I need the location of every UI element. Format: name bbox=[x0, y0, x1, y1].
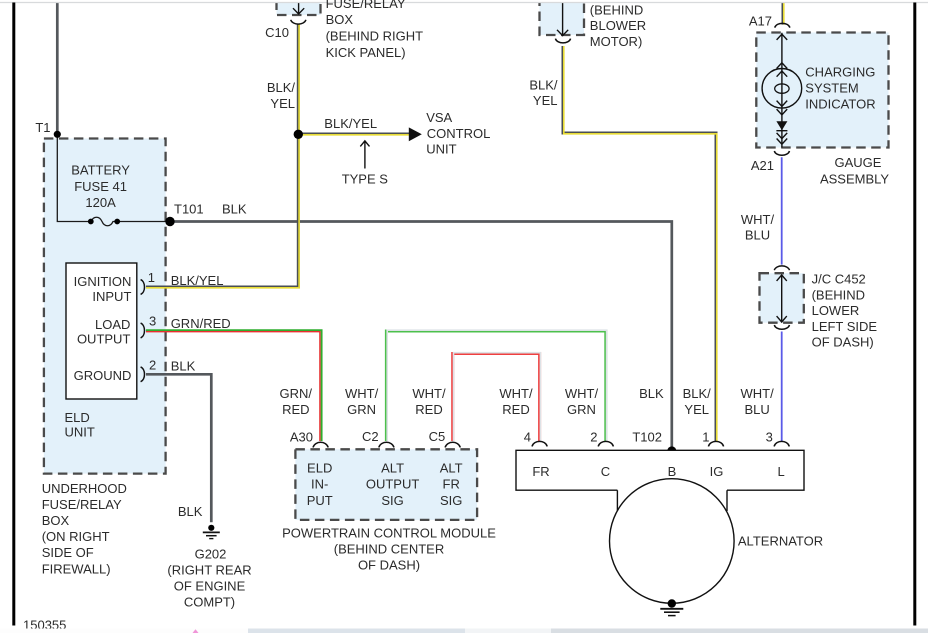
svg-text:BLK: BLK bbox=[222, 202, 247, 217]
svg-text:L: L bbox=[777, 464, 784, 479]
svg-text:UNDERHOOD: UNDERHOOD bbox=[42, 481, 127, 496]
svg-text:CONTROL: CONTROL bbox=[427, 126, 491, 141]
svg-text:A30: A30 bbox=[290, 430, 313, 445]
svg-text:IG: IG bbox=[710, 464, 724, 479]
svg-text:BLK/YEL: BLK/YEL bbox=[324, 116, 377, 131]
svg-text:(RIGHT REAR: (RIGHT REAR bbox=[167, 562, 251, 577]
svg-text:WHT/: WHT/ bbox=[565, 386, 599, 401]
svg-text:ELD: ELD bbox=[307, 460, 332, 475]
svg-text:BLK/: BLK/ bbox=[683, 386, 712, 401]
svg-text:BLK: BLK bbox=[178, 504, 203, 519]
svg-text:(BEHIND: (BEHIND bbox=[812, 287, 865, 302]
svg-text:PUT: PUT bbox=[307, 493, 333, 508]
svg-text:CHARGING: CHARGING bbox=[805, 64, 875, 79]
svg-text:ALTERNATOR: ALTERNATOR bbox=[738, 534, 823, 549]
svg-text:BATTERY: BATTERY bbox=[71, 163, 130, 178]
svg-text:GRN/: GRN/ bbox=[280, 386, 313, 401]
svg-text:2: 2 bbox=[149, 358, 156, 373]
svg-text:(ON RIGHT: (ON RIGHT bbox=[42, 529, 110, 544]
svg-text:WHT/: WHT/ bbox=[741, 212, 775, 227]
svg-text:C5: C5 bbox=[429, 429, 446, 444]
svg-text:UNIT: UNIT bbox=[426, 141, 456, 156]
svg-text:FUSE/RELAY: FUSE/RELAY bbox=[42, 497, 122, 512]
svg-text:LOAD: LOAD bbox=[95, 317, 130, 332]
svg-text:GRN: GRN bbox=[347, 402, 376, 417]
svg-text:FUSE 41: FUSE 41 bbox=[74, 179, 127, 194]
svg-text:BLK: BLK bbox=[171, 359, 196, 374]
svg-text:(BEHIND CENTER: (BEHIND CENTER bbox=[334, 541, 445, 556]
svg-text:IGNITION: IGNITION bbox=[74, 274, 132, 289]
svg-text:G202: G202 bbox=[195, 546, 227, 561]
svg-text:C10: C10 bbox=[265, 25, 289, 40]
svg-text:OUTPUT: OUTPUT bbox=[366, 477, 420, 492]
svg-text:T102: T102 bbox=[632, 430, 662, 445]
svg-text:FR: FR bbox=[532, 464, 549, 479]
svg-text:VSA: VSA bbox=[426, 110, 452, 125]
svg-text:1: 1 bbox=[702, 430, 709, 445]
svg-text:GAUGE: GAUGE bbox=[835, 155, 882, 170]
svg-text:GROUND: GROUND bbox=[74, 368, 132, 383]
svg-text:(BEHIND: (BEHIND bbox=[590, 2, 643, 17]
svg-text:A17: A17 bbox=[749, 14, 772, 29]
svg-text:1: 1 bbox=[148, 270, 155, 285]
svg-text:4: 4 bbox=[524, 430, 531, 445]
svg-text:RED: RED bbox=[282, 402, 309, 417]
svg-text:YEL: YEL bbox=[684, 402, 709, 417]
svg-text:BLK/: BLK/ bbox=[529, 77, 558, 92]
svg-text:SIG: SIG bbox=[381, 493, 403, 508]
svg-text:GRN: GRN bbox=[567, 402, 596, 417]
svg-text:COMPT): COMPT) bbox=[184, 595, 235, 610]
svg-text:A21: A21 bbox=[751, 158, 774, 173]
svg-text:UNIT: UNIT bbox=[65, 425, 95, 440]
svg-text:ALT: ALT bbox=[440, 460, 463, 475]
svg-text:BLU: BLU bbox=[745, 228, 770, 243]
svg-text:J/C C452: J/C C452 bbox=[812, 272, 866, 287]
svg-text:YEL: YEL bbox=[533, 93, 558, 108]
svg-text:C2: C2 bbox=[362, 429, 379, 444]
svg-text:B: B bbox=[668, 464, 677, 479]
svg-text:MOTOR): MOTOR) bbox=[590, 34, 642, 49]
svg-text:C: C bbox=[601, 464, 610, 479]
svg-text:YEL: YEL bbox=[270, 96, 295, 111]
svg-text:120A: 120A bbox=[85, 195, 116, 210]
svg-text:BLK/: BLK/ bbox=[267, 80, 296, 95]
svg-text:WHT/: WHT/ bbox=[412, 386, 446, 401]
svg-text:BLOWER: BLOWER bbox=[590, 18, 646, 33]
svg-text:BOX: BOX bbox=[326, 12, 354, 27]
svg-text:KICK PANEL): KICK PANEL) bbox=[326, 45, 406, 60]
svg-text:RED: RED bbox=[415, 402, 442, 417]
svg-text:IN-: IN- bbox=[311, 477, 328, 492]
svg-text:WHT/: WHT/ bbox=[740, 386, 774, 401]
svg-text:3: 3 bbox=[149, 313, 156, 328]
svg-text:ALT: ALT bbox=[381, 460, 404, 475]
svg-text:FIREWALL): FIREWALL) bbox=[42, 561, 111, 576]
svg-text:OUTPUT: OUTPUT bbox=[77, 332, 131, 347]
svg-text:2: 2 bbox=[590, 430, 597, 445]
svg-text:WHT/: WHT/ bbox=[345, 386, 379, 401]
svg-text:GRN/RED: GRN/RED bbox=[171, 316, 231, 331]
svg-text:BLK: BLK bbox=[639, 386, 664, 401]
svg-text:INPUT: INPUT bbox=[92, 289, 131, 304]
svg-text:POWERTRAIN CONTROL MODULE: POWERTRAIN CONTROL MODULE bbox=[282, 525, 496, 540]
svg-text:OF DASH): OF DASH) bbox=[358, 558, 420, 573]
svg-text:INDICATOR: INDICATOR bbox=[805, 96, 875, 111]
svg-text:WHT/: WHT/ bbox=[499, 386, 533, 401]
svg-text:(BEHIND RIGHT: (BEHIND RIGHT bbox=[326, 29, 424, 44]
svg-text:ASSEMBLY: ASSEMBLY bbox=[820, 171, 889, 186]
svg-text:BLK/YEL: BLK/YEL bbox=[171, 273, 224, 288]
svg-text:RED: RED bbox=[502, 402, 529, 417]
svg-text:BOX: BOX bbox=[42, 513, 70, 528]
svg-text:OF ENGINE: OF ENGINE bbox=[174, 579, 246, 594]
svg-text:LEFT SIDE: LEFT SIDE bbox=[812, 319, 878, 334]
svg-text:SYSTEM: SYSTEM bbox=[805, 80, 858, 95]
svg-text:T1: T1 bbox=[35, 120, 50, 135]
svg-text:T101: T101 bbox=[174, 202, 204, 217]
svg-text:OF DASH): OF DASH) bbox=[812, 335, 874, 350]
svg-text:LOWER: LOWER bbox=[812, 303, 860, 318]
svg-text:3: 3 bbox=[766, 430, 773, 445]
svg-text:BLU: BLU bbox=[744, 402, 769, 417]
svg-text:FR: FR bbox=[443, 477, 460, 492]
svg-text:TYPE S: TYPE S bbox=[342, 171, 389, 186]
svg-text:FUSE/RELAY: FUSE/RELAY bbox=[326, 0, 406, 11]
svg-text:ELD: ELD bbox=[65, 410, 90, 425]
svg-text:SIG: SIG bbox=[440, 493, 462, 508]
svg-text:SIDE OF: SIDE OF bbox=[42, 545, 94, 560]
